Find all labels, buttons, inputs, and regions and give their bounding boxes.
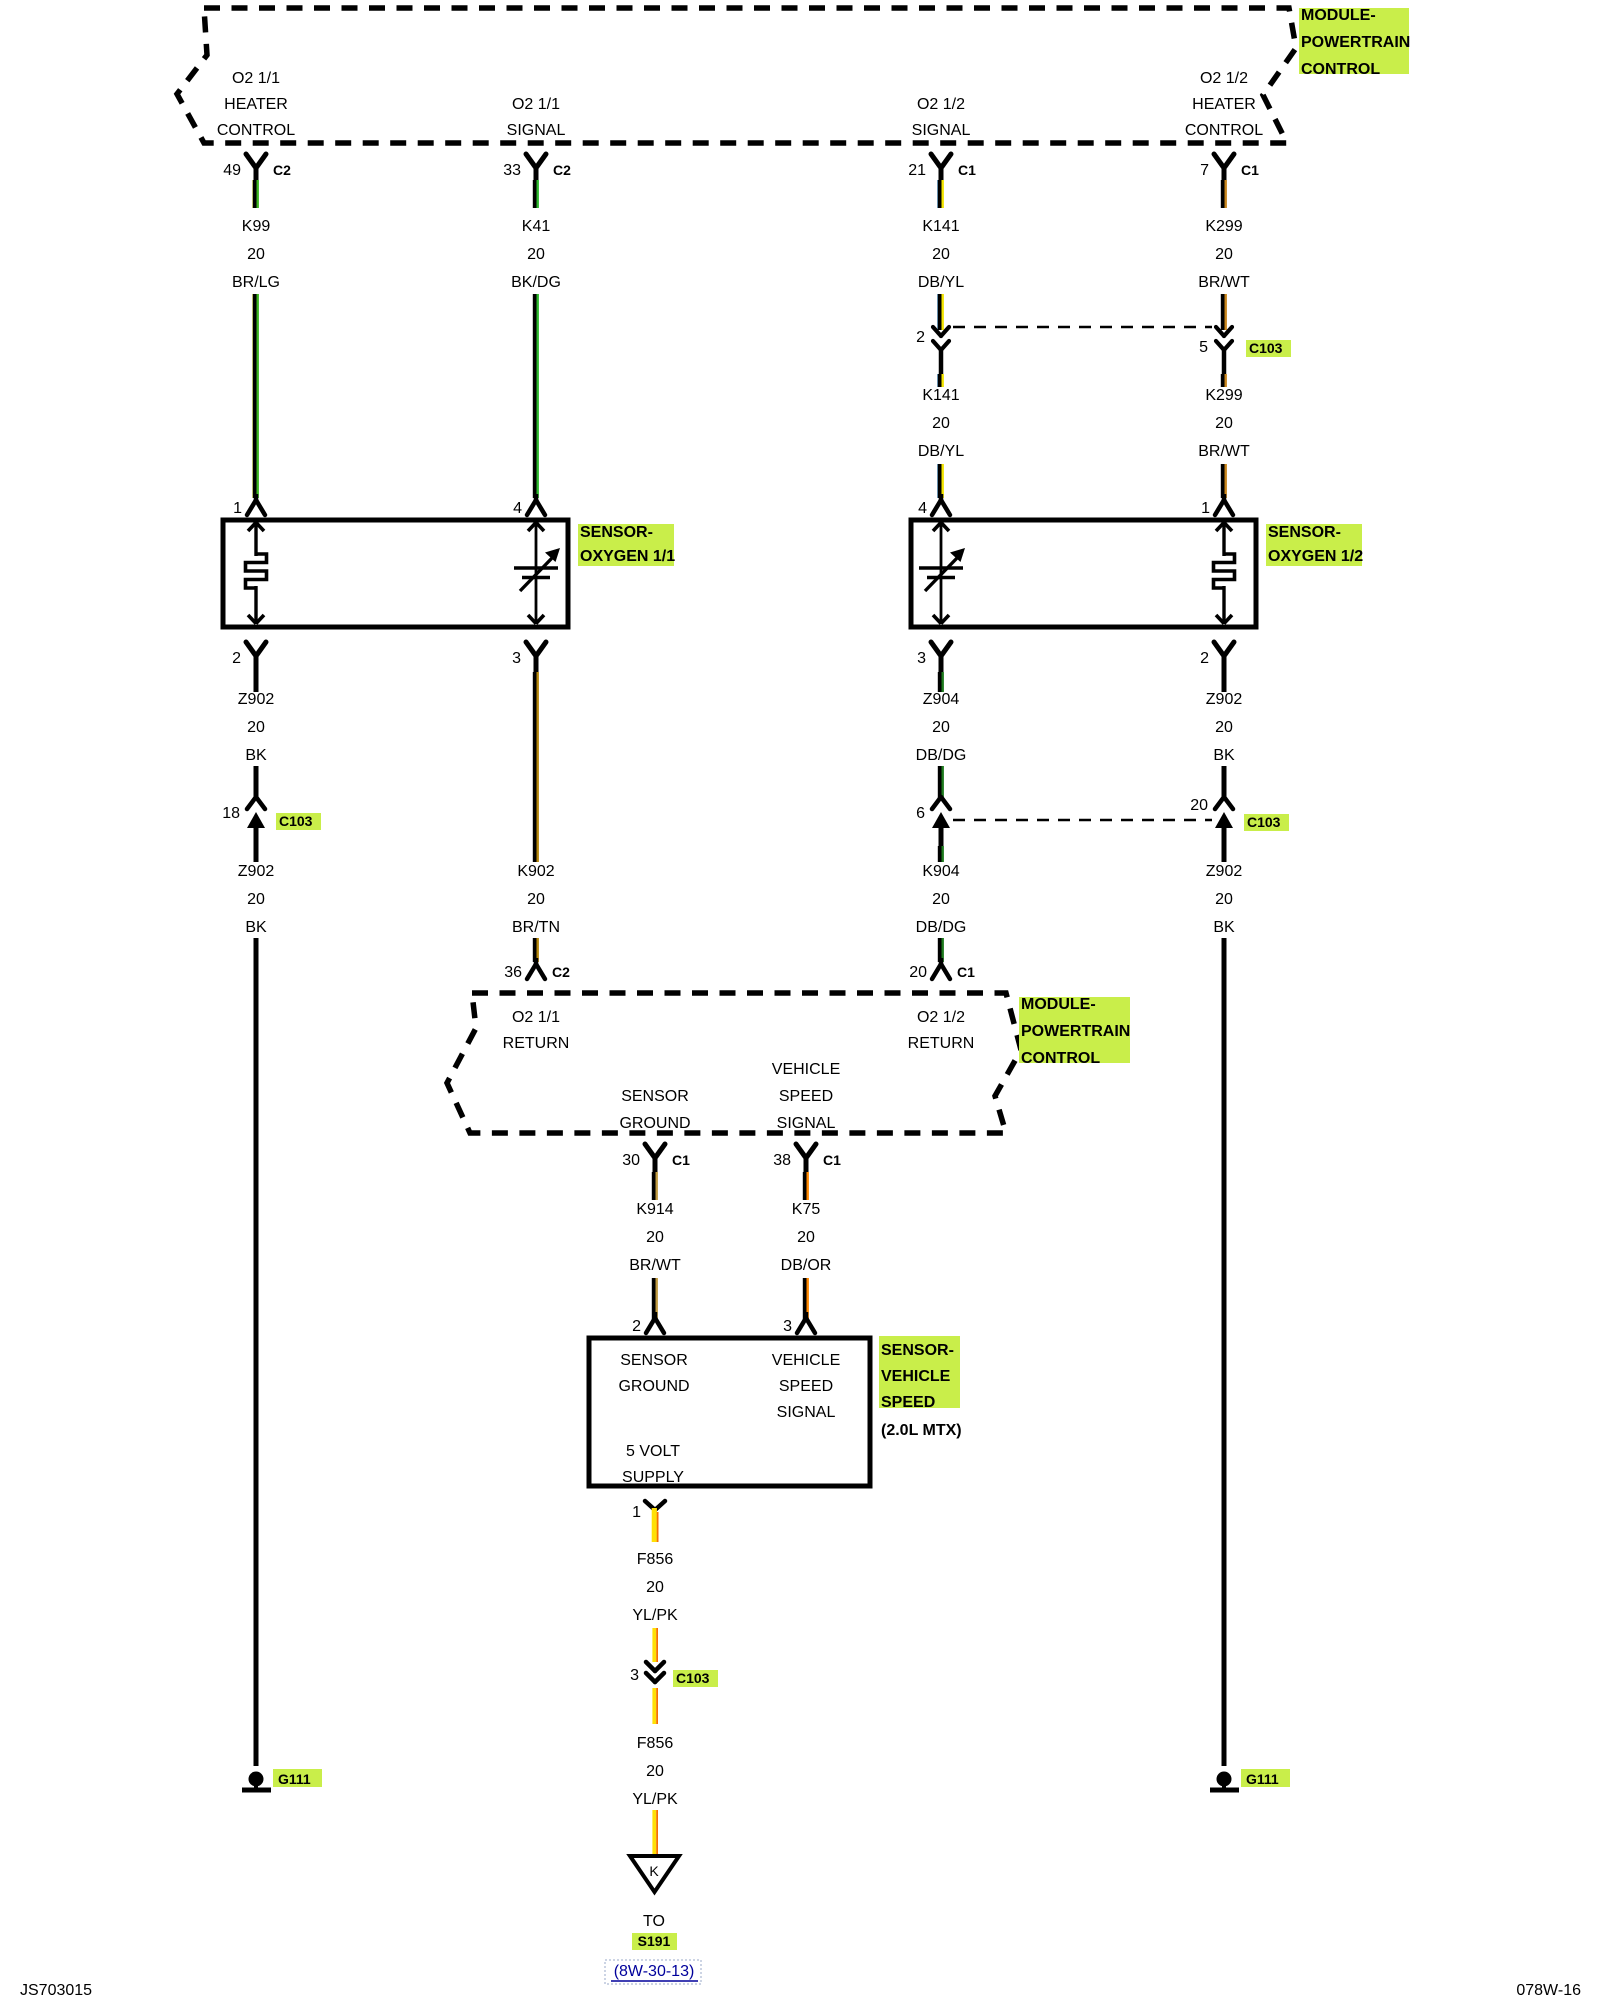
svg-text:SENSOR-: SENSOR- xyxy=(1268,524,1341,541)
svg-text:BR/WT: BR/WT xyxy=(629,1257,681,1274)
wire K299 lower xyxy=(1223,464,1226,498)
wire label K41 20 BK/DG xyxy=(511,218,561,291)
wire label K141 20 DB/YL (2) xyxy=(918,387,964,460)
svg-text:20: 20 xyxy=(1215,246,1233,263)
svg-text:O2 1/1: O2 1/1 xyxy=(512,1009,560,1026)
connector pin 36 C2 xyxy=(504,958,570,981)
svg-text:BR/TN: BR/TN xyxy=(512,919,560,936)
wire K141 below C103 xyxy=(938,374,943,387)
svg-text:SENSOR: SENSOR xyxy=(620,1352,688,1369)
svg-text:SENSOR-: SENSOR- xyxy=(881,1342,954,1359)
connector pin 30 C1 xyxy=(622,1144,690,1178)
wire Z902 ground run (col1) xyxy=(254,938,259,1766)
connector C103 pin 18 xyxy=(222,797,265,847)
dashed connector link C103 row1 xyxy=(953,326,1212,329)
wire K141 upper xyxy=(938,294,943,330)
svg-text:20: 20 xyxy=(1215,891,1233,908)
svg-text:GROUND: GROUND xyxy=(618,1378,689,1395)
wire K99 xyxy=(253,294,258,498)
svg-text:MODULE-: MODULE- xyxy=(1021,996,1096,1013)
svg-text:18: 18 xyxy=(222,805,240,822)
ground G111 (left) xyxy=(242,1769,322,1790)
label SENSOR-OXYGEN 1/2 xyxy=(1266,524,1363,566)
svg-text:33: 33 xyxy=(503,162,521,179)
svg-text:20: 20 xyxy=(909,964,927,981)
svg-text:C2: C2 xyxy=(553,162,571,178)
connector pin 7 C1 xyxy=(1200,154,1259,188)
vss pin 3 xyxy=(783,1312,815,1335)
svg-text:5: 5 xyxy=(1199,339,1208,356)
sensor pin 4 (O2 1/1) xyxy=(513,494,545,517)
connector C103 label row1 xyxy=(1246,340,1291,357)
label SENSOR-OXYGEN 1/1 xyxy=(578,524,675,566)
wire label F856 20 YL/PK (lower) xyxy=(632,1735,678,1808)
svg-text:C1: C1 xyxy=(958,162,976,178)
svg-text:K141: K141 xyxy=(922,218,959,235)
svg-text:YL/PK: YL/PK xyxy=(632,1791,678,1808)
vss label VEHICLE SPEED SIGNAL xyxy=(772,1352,840,1421)
svg-text:Z902: Z902 xyxy=(238,691,275,708)
svg-text:F856: F856 xyxy=(637,1735,674,1752)
wire label K914 20 BR/WT xyxy=(629,1201,681,1274)
svg-text:O2 1/2: O2 1/2 xyxy=(917,96,965,113)
svg-text:SIGNAL: SIGNAL xyxy=(507,122,566,139)
wire label K75 20 DB/OR xyxy=(781,1201,832,1274)
svg-text:20: 20 xyxy=(932,415,950,432)
sensor pin 2 (O2 1/2) xyxy=(1200,642,1234,676)
svg-text:RETURN: RETURN xyxy=(908,1035,975,1052)
connector pin 20 C1 xyxy=(909,958,975,981)
connector C103 pin 3 xyxy=(630,1662,664,1684)
svg-text:K141: K141 xyxy=(922,387,959,404)
svg-text:2: 2 xyxy=(916,329,925,346)
svg-text:20: 20 xyxy=(646,1229,664,1246)
vss label 5 VOLT SUPPLY xyxy=(622,1443,684,1486)
heater element (O2 1/2) xyxy=(1214,522,1235,624)
svg-text:SENSOR: SENSOR xyxy=(621,1088,689,1105)
svg-text:K75: K75 xyxy=(792,1201,821,1218)
svg-text:OXYGEN 1/2: OXYGEN 1/2 xyxy=(1268,548,1363,565)
svg-text:G111: G111 xyxy=(1246,1771,1279,1787)
wire label K902 20 BR/TN xyxy=(512,863,560,936)
svg-text:38: 38 xyxy=(773,1152,791,1169)
svg-text:1: 1 xyxy=(1201,500,1210,517)
svg-text:MODULE-: MODULE- xyxy=(1301,7,1376,24)
svg-text:Z902: Z902 xyxy=(1206,863,1243,880)
sensing element (O2 1/2) xyxy=(919,522,965,624)
svg-text:CONTROL: CONTROL xyxy=(217,122,295,139)
svg-text:POWERTRAIN: POWERTRAIN xyxy=(1301,34,1410,51)
wire label K299 20 BR/WT (2) xyxy=(1198,387,1250,460)
svg-text:CONTROL: CONTROL xyxy=(1021,1050,1100,1067)
svg-text:BK/DG: BK/DG xyxy=(511,274,561,291)
wire K75 stub xyxy=(805,1172,808,1200)
svg-text:20: 20 xyxy=(932,719,950,736)
oxygen sensor 1/1 box xyxy=(223,520,568,627)
dashed connector link C103 row2 xyxy=(953,819,1212,822)
pin function label O2 1/2 SIGNAL xyxy=(912,96,971,139)
pin label SENSOR GROUND (pcm) xyxy=(619,1088,690,1132)
svg-text:BR/WT: BR/WT xyxy=(1198,274,1250,291)
svg-text:SENSOR-: SENSOR- xyxy=(580,524,653,541)
pin function label O2 1/1 SIGNAL xyxy=(507,96,566,139)
svg-text:3: 3 xyxy=(783,1318,792,1335)
svg-text:C103: C103 xyxy=(279,813,313,829)
svg-text:SUPPLY: SUPPLY xyxy=(622,1469,684,1486)
off-page reference triangle K xyxy=(630,1856,679,1892)
wire K99 stub xyxy=(253,180,258,208)
svg-text:20: 20 xyxy=(1190,797,1208,814)
svg-text:20: 20 xyxy=(932,246,950,263)
svg-text:Z902: Z902 xyxy=(238,863,275,880)
svg-text:CONTROL: CONTROL xyxy=(1185,122,1263,139)
svg-text:SPEED: SPEED xyxy=(881,1394,935,1411)
sensor pin 4 (O2 1/2) xyxy=(918,494,950,517)
svg-text:C103: C103 xyxy=(676,1670,710,1686)
ground G111 (right) xyxy=(1210,1769,1290,1790)
wire K914 xyxy=(654,1278,657,1320)
svg-text:20: 20 xyxy=(1215,415,1233,432)
sensor pin 3 (O2 1/2) xyxy=(917,642,951,676)
svg-text:30: 30 xyxy=(622,1152,640,1169)
svg-text:BK: BK xyxy=(245,747,267,764)
connector pin 49 C2 xyxy=(223,154,291,188)
svg-text:K914: K914 xyxy=(636,1201,673,1218)
wire label Z904 20 DB/DG xyxy=(916,691,967,764)
svg-text:HEATER: HEATER xyxy=(224,96,288,113)
connector C103 label (col1) xyxy=(276,813,321,830)
svg-text:20: 20 xyxy=(932,891,950,908)
connector C103 pin 2 xyxy=(916,327,949,374)
svg-text:K: K xyxy=(649,1863,659,1879)
label MODULE-POWERTRAIN CONTROL (middle) xyxy=(1019,996,1130,1067)
svg-text:1: 1 xyxy=(632,1504,641,1521)
wire K914 stub xyxy=(654,1172,657,1200)
svg-text:1: 1 xyxy=(233,500,242,517)
pin function label O2 1/2 HEATER CONTROL xyxy=(1185,70,1263,139)
svg-text:O2 1/1: O2 1/1 xyxy=(232,70,280,87)
wire K904 stub to PCM xyxy=(940,938,943,962)
svg-text:5 VOLT: 5 VOLT xyxy=(626,1443,680,1460)
svg-text:20: 20 xyxy=(1215,719,1233,736)
wire Z902 (col1) to C103 xyxy=(254,766,259,799)
connector C103 pin 6 xyxy=(916,797,950,847)
svg-text:BR/WT: BR/WT xyxy=(1198,443,1250,460)
svg-text:SPEED: SPEED xyxy=(779,1088,833,1105)
svg-text:O2 1/1: O2 1/1 xyxy=(512,96,560,113)
svg-text:VEHICLE: VEHICLE xyxy=(772,1061,840,1078)
svg-text:SPEED: SPEED xyxy=(779,1378,833,1395)
wire label K299 20 BR/WT xyxy=(1198,218,1250,291)
wire K904 stub below C103 xyxy=(940,846,943,862)
svg-text:3: 3 xyxy=(917,650,926,667)
svg-text:C103: C103 xyxy=(1249,340,1283,356)
wire K141 stub xyxy=(938,180,943,208)
module powertrain control (middle) dashed outline xyxy=(447,993,1021,1133)
svg-text:7: 7 xyxy=(1200,162,1209,179)
svg-text:20: 20 xyxy=(646,1579,664,1596)
svg-text:2: 2 xyxy=(632,1318,641,1335)
wire label K99 20 BR/LG xyxy=(232,218,280,291)
svg-text:G111: G111 xyxy=(278,1771,311,1787)
svg-text:20: 20 xyxy=(247,246,265,263)
connector C103 pin 5 xyxy=(1199,327,1232,374)
oxygen sensor 1/2 box xyxy=(911,520,1256,627)
wire label Z902 20 BK (col4 upper) xyxy=(1206,691,1243,764)
wire F856 stub xyxy=(654,1508,657,1542)
svg-text:K299: K299 xyxy=(1205,218,1242,235)
wire Z902 (col4) to C103 xyxy=(1222,766,1227,799)
vss pin 1 xyxy=(632,1501,665,1521)
sensor pin 1 (O2 1/1) xyxy=(233,494,265,517)
wire K299 below C103 xyxy=(1223,374,1226,387)
connector pin 21 C1 xyxy=(908,154,976,188)
wire K902 stub to PCM xyxy=(535,938,538,962)
svg-text:2: 2 xyxy=(1200,650,1209,667)
svg-text:OXYGEN 1/1: OXYGEN 1/1 xyxy=(580,548,675,565)
heater element (O2 1/1) xyxy=(246,522,267,624)
svg-text:DB/YL: DB/YL xyxy=(918,443,964,460)
svg-text:RETURN: RETURN xyxy=(503,1035,570,1052)
svg-text:Z904: Z904 xyxy=(923,691,960,708)
wire F856 lower xyxy=(654,1688,657,1724)
svg-text:POWERTRAIN: POWERTRAIN xyxy=(1021,1023,1130,1040)
svg-text:C1: C1 xyxy=(1241,162,1259,178)
svg-text:21: 21 xyxy=(908,162,926,179)
svg-text:C2: C2 xyxy=(552,964,570,980)
svg-text:SIGNAL: SIGNAL xyxy=(777,1115,836,1132)
label SENSOR-VEHICLE SPEED (2.0L MTX) xyxy=(879,1336,962,1439)
vss pin 2 xyxy=(632,1312,664,1335)
wire label F856 20 YL/PK (upper) xyxy=(632,1551,678,1624)
svg-text:O2 1/2: O2 1/2 xyxy=(1200,70,1248,87)
svg-text:GROUND: GROUND xyxy=(619,1115,690,1132)
wire label Z902 20 BK (col1 upper) xyxy=(238,691,275,764)
wire K141 lower xyxy=(938,464,943,498)
label TO S191 xyxy=(632,1913,677,1950)
svg-text:VEHICLE: VEHICLE xyxy=(881,1368,951,1385)
svg-text:(8W-30-13): (8W-30-13) xyxy=(614,1963,695,1980)
wire Z902 stub below C103 (col4) xyxy=(1222,846,1227,862)
svg-text:6: 6 xyxy=(916,805,925,822)
wire K41 stub xyxy=(535,180,538,208)
svg-text:K41: K41 xyxy=(522,218,551,235)
module powertrain control (top) dashed outline xyxy=(177,8,1296,143)
svg-text:K99: K99 xyxy=(242,218,271,235)
svg-text:BK: BK xyxy=(1213,919,1235,936)
wire Z904 stub xyxy=(940,672,943,692)
pin label VEHICLE SPEED SIGNAL (pcm) xyxy=(772,1061,840,1132)
svg-text:K902: K902 xyxy=(517,863,554,880)
svg-text:C1: C1 xyxy=(823,1152,841,1168)
pin function label O2 1/1 HEATER CONTROL xyxy=(217,70,295,139)
svg-text:20: 20 xyxy=(247,891,265,908)
connector C103 label (bottom) xyxy=(673,1670,718,1687)
footer drawing number JS703015 xyxy=(20,1982,92,1999)
svg-text:20: 20 xyxy=(797,1229,815,1246)
wire Z902 stub (col1) xyxy=(254,672,259,692)
svg-text:3: 3 xyxy=(630,1667,639,1684)
wire K902 xyxy=(535,672,538,862)
svg-text:YL/PK: YL/PK xyxy=(632,1607,678,1624)
wire Z904 to C103 xyxy=(940,766,943,799)
svg-text:F856: F856 xyxy=(637,1551,674,1568)
svg-text:4: 4 xyxy=(918,500,927,517)
hyperlink (8W-30-13) xyxy=(605,1960,701,1984)
svg-text:JS703015: JS703015 xyxy=(20,1982,92,1999)
wire K299 stub xyxy=(1223,180,1226,208)
svg-text:20: 20 xyxy=(646,1763,664,1780)
wire F856 to splice xyxy=(654,1810,657,1856)
wire label K904 20 DB/DG xyxy=(916,863,967,936)
vss label SENSOR GROUND xyxy=(618,1352,689,1395)
connector C103 label (col4) xyxy=(1244,814,1289,831)
svg-text:DB/DG: DB/DG xyxy=(916,747,967,764)
svg-text:DB/OR: DB/OR xyxy=(781,1257,832,1274)
svg-text:DB/YL: DB/YL xyxy=(918,274,964,291)
sensing element (O2 1/1) xyxy=(514,522,560,624)
svg-text:20: 20 xyxy=(247,719,265,736)
svg-text:BR/LG: BR/LG xyxy=(232,274,280,291)
pin label O2 1/2 RETURN xyxy=(908,1009,975,1052)
svg-text:078W-16: 078W-16 xyxy=(1516,1982,1581,1999)
svg-text:DB/DG: DB/DG xyxy=(916,919,967,936)
sensor pin 2 (O2 1/1) xyxy=(232,642,266,676)
svg-text:HEATER: HEATER xyxy=(1192,96,1256,113)
svg-text:3: 3 xyxy=(512,650,521,667)
svg-text:BK: BK xyxy=(1213,747,1235,764)
vehicle speed sensor box xyxy=(589,1338,870,1486)
svg-text:BK: BK xyxy=(245,919,267,936)
svg-text:36: 36 xyxy=(504,964,522,981)
svg-text:S191: S191 xyxy=(638,1933,671,1949)
svg-text:(2.0L MTX): (2.0L MTX) xyxy=(881,1422,962,1439)
wire K41 xyxy=(535,294,538,498)
svg-text:C1: C1 xyxy=(957,964,975,980)
wire label Z902 20 BK (col4 lower) xyxy=(1206,863,1243,936)
wire K75 xyxy=(805,1278,808,1320)
wire K299 upper xyxy=(1223,294,1226,330)
connector pin 33 C2 xyxy=(503,154,571,188)
wire Z902 stub (col4) xyxy=(1222,672,1227,692)
svg-text:C1: C1 xyxy=(672,1152,690,1168)
svg-text:2: 2 xyxy=(232,650,241,667)
svg-text:CONTROL: CONTROL xyxy=(1301,61,1380,78)
wire label K141 20 DB/YL xyxy=(918,218,964,291)
wire Z902 stub below C103 (col1) xyxy=(254,846,259,862)
svg-text:K299: K299 xyxy=(1205,387,1242,404)
svg-text:Z902: Z902 xyxy=(1206,691,1243,708)
svg-text:49: 49 xyxy=(223,162,241,179)
wire F856 upper xyxy=(654,1628,657,1662)
svg-text:4: 4 xyxy=(513,500,522,517)
svg-text:TO: TO xyxy=(643,1913,665,1930)
svg-text:SIGNAL: SIGNAL xyxy=(777,1404,836,1421)
svg-text:20: 20 xyxy=(527,891,545,908)
svg-text:C103: C103 xyxy=(1247,814,1281,830)
connector pin 38 C1 xyxy=(773,1144,841,1178)
svg-text:C2: C2 xyxy=(273,162,291,178)
svg-text:VEHICLE: VEHICLE xyxy=(772,1352,840,1369)
wire Z902 ground run (col4) xyxy=(1222,938,1227,1766)
svg-text:K904: K904 xyxy=(922,863,959,880)
svg-text:O2 1/2: O2 1/2 xyxy=(917,1009,965,1026)
connector C103 pin 20 xyxy=(1190,797,1233,847)
svg-text:20: 20 xyxy=(527,246,545,263)
wire label Z902 20 BK (col1 lower) xyxy=(238,863,275,936)
pin label O2 1/1 RETURN xyxy=(503,1009,570,1052)
label MODULE-POWERTRAIN CONTROL (top) xyxy=(1299,7,1410,78)
svg-text:SIGNAL: SIGNAL xyxy=(912,122,971,139)
sensor pin 3 (O2 1/1) xyxy=(512,642,546,676)
sensor pin 1 (O2 1/2) xyxy=(1201,494,1233,517)
footer sheet number 078W-16 xyxy=(1516,1982,1581,1999)
